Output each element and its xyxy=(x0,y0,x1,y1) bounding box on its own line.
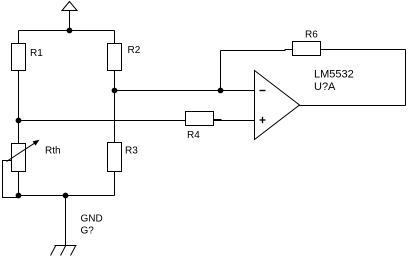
junction feedback tap xyxy=(218,88,224,94)
op-amp U1 LM5532 xyxy=(255,69,354,140)
wire VCC to top rail xyxy=(69,11,71,31)
wire plus input xyxy=(214,120,255,122)
resistor R6 xyxy=(293,30,321,56)
svg-text:Rth: Rth xyxy=(45,146,61,157)
wire feedback up xyxy=(220,51,222,91)
wire feedback jog xyxy=(285,49,293,51)
resistor R1 xyxy=(12,44,44,71)
svg-text:LM5532: LM5532 xyxy=(314,69,354,81)
junction top rail xyxy=(67,28,73,34)
wire Rth bottom lead xyxy=(18,172,20,196)
wire feedback left xyxy=(221,50,286,52)
wire ground lead xyxy=(65,196,67,246)
potentiometer Rth xyxy=(7,121,61,172)
junction Rth bottom xyxy=(16,193,22,199)
wire output xyxy=(300,105,406,107)
wire minus rail xyxy=(115,90,255,92)
junction ground tap xyxy=(63,193,69,199)
wire top rail xyxy=(19,30,115,32)
wire R1 top lead xyxy=(18,31,20,44)
junction node bridge-right xyxy=(112,88,118,94)
svg-text:R2: R2 xyxy=(128,45,141,56)
power symbol VCC xyxy=(62,2,77,11)
wire feedback down xyxy=(405,50,407,106)
wire R2 bottom lead xyxy=(114,71,116,91)
wire R6 right xyxy=(321,49,406,51)
junction node bridge-left xyxy=(16,118,22,124)
wire R2 top lead xyxy=(114,31,116,44)
svg-text:R3: R3 xyxy=(125,146,138,157)
resistor R4 xyxy=(186,112,214,142)
svg-text:R4: R4 xyxy=(187,130,200,141)
svg-text:GND: GND xyxy=(81,214,103,225)
wire R1 bottom lead xyxy=(18,71,20,121)
svg-text:G?: G? xyxy=(81,226,95,237)
wire Rth wiper bracket xyxy=(3,161,18,198)
wire R3 bottom lead xyxy=(114,172,116,196)
resistor R2 xyxy=(108,44,141,71)
wire R4 right stub xyxy=(214,119,222,121)
node GND label xyxy=(81,214,103,237)
wire plus rail xyxy=(19,120,186,122)
wire bottom rail xyxy=(19,195,115,197)
svg-text:R6: R6 xyxy=(305,30,318,41)
svg-text:R1: R1 xyxy=(30,48,43,59)
wire R3 top lead xyxy=(114,91,116,143)
svg-text:U?A: U?A xyxy=(314,81,336,93)
ground xyxy=(51,246,77,256)
resistor R3 xyxy=(108,143,139,172)
